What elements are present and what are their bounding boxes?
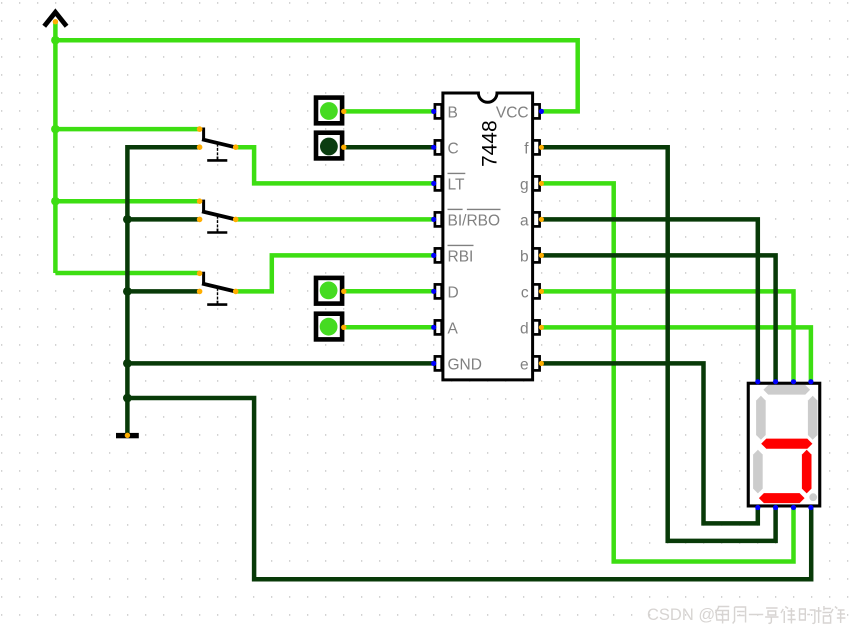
- pin dot c: [539, 289, 544, 294]
- display pin g: [791, 505, 796, 510]
- display segment e (off): [753, 450, 763, 494]
- wire rail to switch S3 top: [55, 271, 199, 276]
- svg-text:c: c: [521, 284, 529, 301]
- display pin a: [755, 379, 760, 384]
- pin dot C: [431, 145, 436, 150]
- watermark CJK glyphs (approximated strokes): [715, 606, 845, 624]
- pin dot RBI: [431, 253, 436, 258]
- pin dot BI/RBO: [431, 217, 436, 222]
- display pin c: [791, 379, 796, 384]
- wire b output to display b: [541, 255, 775, 381]
- junction on VCC rail at top wire: [51, 36, 60, 45]
- ground symbol: [116, 433, 139, 439]
- pin dot VCC: [539, 109, 544, 114]
- wire c output to display c: [541, 291, 793, 381]
- wire VCC pin to top rail: [55, 40, 577, 111]
- pin dot f: [539, 145, 544, 150]
- pin box VCC: [533, 104, 540, 118]
- pin dot LT: [431, 181, 436, 186]
- junction on ground rail at GND wire: [123, 359, 132, 368]
- pin dot a: [539, 217, 544, 222]
- pin dot GND: [431, 361, 436, 366]
- display pin b: [773, 379, 778, 384]
- pin box e: [533, 356, 540, 370]
- svg-text:CSDN @: CSDN @: [647, 606, 715, 624]
- pin dot A: [431, 325, 436, 330]
- svg-text:a: a: [520, 212, 529, 229]
- pin box c: [533, 284, 540, 298]
- junction on ground rail at S3: [123, 287, 132, 296]
- display decimal point (off): [809, 493, 817, 501]
- svg-text:d: d: [520, 320, 529, 337]
- switch S1: [197, 126, 239, 160]
- svg-text:D: D: [448, 284, 459, 301]
- wire rail to switch S2 top: [55, 199, 199, 204]
- button B input: [316, 98, 346, 124]
- button A input: [316, 314, 346, 340]
- VCC supply arrow: [44, 12, 66, 26]
- svg-text:f: f: [524, 140, 529, 157]
- pin dot b: [539, 253, 544, 258]
- wire S3 output to RBI pin: [236, 255, 434, 291]
- svg-text:BI/RBO: BI/RBO: [448, 212, 501, 229]
- button C input: [316, 133, 346, 159]
- pin box b: [533, 248, 540, 262]
- pin box a: [533, 212, 540, 226]
- svg-text:A: A: [448, 320, 459, 337]
- pin box B (pin 7): [435, 104, 442, 118]
- display pin f: [773, 505, 778, 510]
- button D input: [316, 278, 346, 304]
- wire VCC net vertical rail: [53, 22, 58, 273]
- wire g output to display g: [541, 183, 793, 561]
- wire button D to pin D: [344, 289, 434, 294]
- svg-text:C: C: [448, 140, 459, 157]
- wire S1 bottom to ground rail: [127, 147, 199, 433]
- switch S2: [197, 198, 239, 232]
- pin dot g: [539, 181, 544, 186]
- wire f output to display f: [541, 147, 775, 541]
- overline BI: [448, 208, 463, 210]
- pin box A: [435, 320, 442, 334]
- pin dot d: [539, 325, 544, 330]
- wire ground rail to S3 bottom: [127, 289, 199, 294]
- pin dot e: [539, 361, 544, 366]
- display segment f (off): [756, 396, 766, 440]
- svg-text:e: e: [520, 356, 529, 373]
- svg-text:7448: 7448: [478, 120, 501, 167]
- pin dot D: [431, 289, 436, 294]
- svg-text:GND: GND: [448, 356, 482, 373]
- wire S2 output to BI/RBO pin: [236, 217, 434, 222]
- wire S1 output to LT pin: [236, 147, 434, 183]
- pin box D: [435, 284, 442, 298]
- display pin e: [755, 505, 760, 510]
- junction on VCC rail at S2: [51, 197, 60, 206]
- svg-text:LT: LT: [448, 176, 465, 193]
- junction on VCC rail at S1: [51, 125, 60, 134]
- svg-text:b: b: [520, 248, 529, 265]
- svg-text:RBI: RBI: [448, 248, 474, 265]
- junction on ground rail at S2: [123, 215, 132, 224]
- display segment b (off): [808, 396, 818, 440]
- wire button B to pin B: [344, 109, 434, 114]
- seven segment display body: [748, 383, 820, 506]
- wire d output to display d: [541, 327, 811, 381]
- pin dot B: [431, 109, 436, 114]
- wire button C to pin C: [344, 145, 434, 150]
- pin box BI/RBO: [435, 212, 442, 226]
- pin box g: [533, 176, 540, 190]
- wire ground rail to display dp: [127, 398, 811, 579]
- display pin dp: [808, 505, 813, 510]
- overline RBO: [467, 208, 501, 210]
- junction on ground rail at dp wire: [123, 394, 132, 403]
- wire ground rail to S2 bottom: [127, 217, 199, 222]
- display pin d: [808, 379, 813, 384]
- wire a output to display a: [541, 219, 757, 381]
- pin box RBI: [435, 248, 442, 262]
- pin box d: [533, 320, 540, 334]
- wire rail to switch S1 top: [55, 127, 199, 132]
- display segment a (off): [763, 385, 810, 395]
- wire ground rail to GND pin: [127, 361, 433, 366]
- wire e output to display e: [541, 363, 757, 523]
- display segment c (on): [802, 450, 812, 494]
- overline RBI: [448, 244, 474, 246]
- overline LT: [448, 172, 466, 174]
- display segment g (on): [761, 439, 812, 449]
- svg-text:g: g: [520, 176, 529, 193]
- pin box C (pin 1): [435, 140, 442, 154]
- switch S3: [197, 271, 239, 305]
- pin box f: [533, 140, 540, 154]
- pin box LT: [435, 176, 442, 190]
- svg-text:VCC: VCC: [496, 104, 529, 121]
- pin box GND: [435, 356, 442, 370]
- display segment d (on): [759, 493, 805, 503]
- wire button A to pin A: [344, 325, 434, 330]
- svg-text:B: B: [448, 104, 458, 121]
- IC U1 7448 body: [443, 93, 533, 380]
